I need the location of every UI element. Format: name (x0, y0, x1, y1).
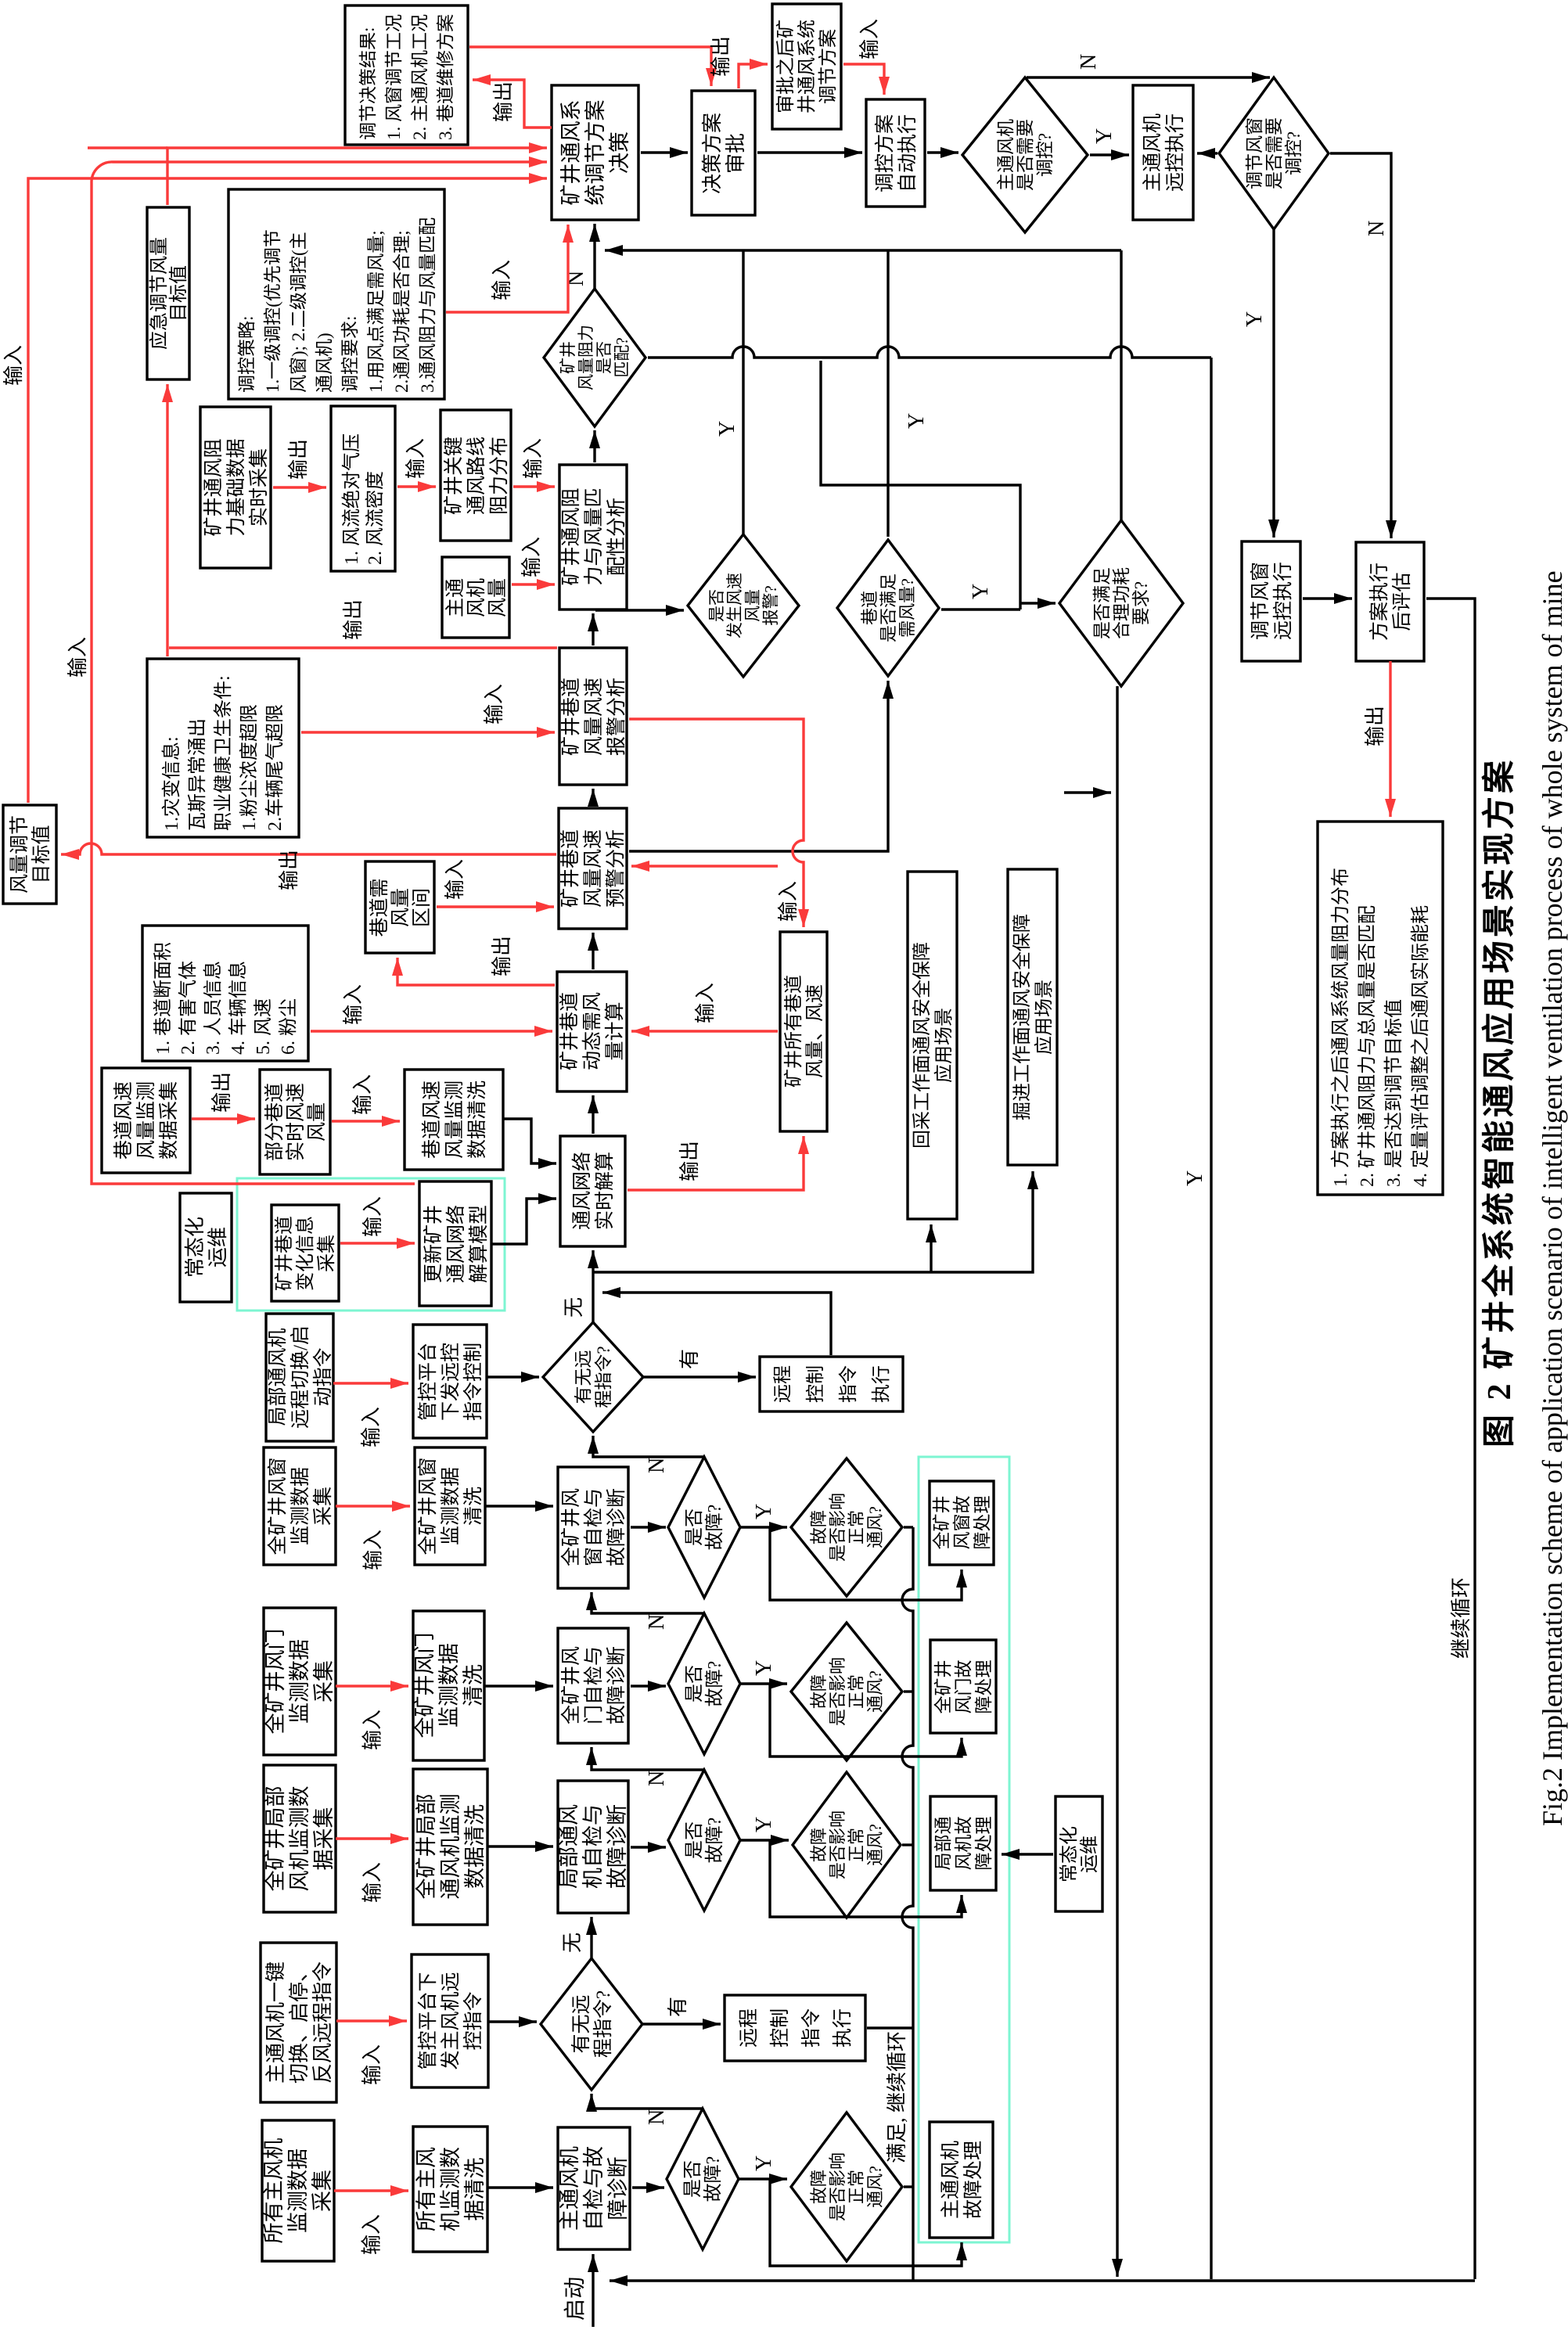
box: 矿井关键通风路线阻力分布 (441, 410, 511, 541)
svg-text:要求?: 要求? (1131, 581, 1151, 625)
wire: 需风量满足支线 (821, 361, 1020, 609)
red wire: 报警分析输出上行 (169, 646, 557, 649)
svg-text:指令: 指令 (838, 1365, 859, 1403)
box: 矿井巷道风量风速预警分析 (559, 808, 627, 929)
svg-text:故障处理: 故障处理 (962, 2141, 984, 2219)
wire: 汇流上行入决策 (605, 249, 1121, 251)
svg-text:通风路线: 通风路线 (466, 437, 487, 515)
box: 主通风机远控执行 (1133, 85, 1193, 220)
svg-text:输出: 输出 (210, 1072, 233, 1113)
svg-text:矿井: 矿井 (559, 341, 577, 374)
svg-text:数据采集: 数据采集 (158, 1081, 180, 1160)
svg-text:是否影响: 是否影响 (828, 1657, 847, 1726)
diamond: 是否故障?(风窗) (668, 1457, 740, 1598)
box: 决策方案审批 (692, 91, 755, 215)
wire: 有无远程指令局有 (643, 1375, 756, 1378)
svg-text:执行: 执行 (832, 2008, 854, 2048)
svg-text:自动执行: 自动执行 (897, 114, 919, 192)
svg-text:调控策略:: 调控策略: (237, 316, 257, 393)
svg-text:风量监测: 风量监测 (135, 1081, 157, 1160)
svg-text:矿井巷道: 矿井巷道 (274, 1216, 295, 1291)
wire: 回采场景支线 (930, 1224, 932, 1272)
red wire: 调节决策结果到审批 (469, 47, 711, 86)
svg-text:力与风量匹: 力与风量匹 (583, 487, 605, 585)
svg-text:障诊断: 障诊断 (606, 2157, 630, 2220)
svg-text:3. 是否达到调节目标值: 3. 是否达到调节目标值 (1383, 999, 1404, 1187)
svg-text:管控平台下: 管控平台下 (417, 1972, 439, 2069)
svg-text:数据清洗: 数据清洗 (466, 1081, 488, 1159)
svg-text:2.通风功耗是否合理;: 2.通风功耗是否合理; (392, 230, 412, 393)
wire: 风窗远控执行到方案执行后评估 (1303, 597, 1352, 599)
svg-text:矿井巷道: 矿井巷道 (560, 678, 582, 756)
svg-text:下发远控: 下发远控 (440, 1343, 462, 1421)
svg-text:风量: 风量 (487, 578, 509, 617)
svg-text:输出: 输出 (710, 36, 732, 77)
box: 通风网络实时解算 (560, 1136, 625, 1246)
wire: 满足入循环 (1064, 791, 1111, 793)
svg-text:故障: 故障 (809, 2170, 829, 2204)
svg-text:5. 风速: 5. 风速 (253, 998, 274, 1055)
wire: 有无远程指令局无 (592, 1250, 594, 1322)
wire: 远程执行主下行 (867, 2026, 913, 2029)
svg-text:风机监测数: 风机监测数 (288, 1786, 311, 1892)
svg-text:是否: 是否 (707, 589, 726, 622)
svg-text:指令: 指令 (800, 2008, 822, 2048)
svg-text:门自检与: 门自检与 (583, 1646, 605, 1724)
wire: 匹配判断N到决策 (593, 224, 595, 289)
diamond: 有无远程指令?(主) (541, 1958, 642, 2090)
wire: 是否故障局Y (740, 1839, 789, 1841)
svg-text:回采工作面通风安全保障: 回采工作面通风安全保障 (912, 942, 933, 1149)
svg-text:风量风速: 风量风速 (582, 829, 604, 908)
svg-text:应用场景: 应用场景 (933, 1008, 955, 1083)
svg-text:远程切换/启: 远程切换/启 (290, 1325, 311, 1429)
wire: 是否故障主Y (739, 2177, 787, 2180)
svg-text:所有主风: 所有主风 (415, 2147, 438, 2231)
red wire: 决策输出到调节决策结果 (473, 80, 552, 128)
red wire: 所有主风机采集到清洗 (334, 2189, 408, 2192)
box: 局部通风机故障处理 (930, 1796, 996, 1890)
wire: 是否故障风门N (592, 1592, 704, 1613)
svg-text:风窗故: 风窗故 (952, 1496, 972, 1550)
wire: 预警分析到报警分析 (592, 789, 594, 806)
wire: 主自检到是否故障 (632, 2186, 664, 2188)
box: 矿井所有巷道风量风速 (780, 932, 827, 1131)
box: 更新矿井通风网络解算模型 (419, 1181, 491, 1306)
diamond: 故障是否影响正常通风?(主) (791, 2112, 902, 2261)
svg-text:是否: 是否 (685, 1821, 705, 1859)
svg-text:切换、启停、: 切换、启停、 (288, 1961, 311, 2084)
svg-text:风门故: 风门故 (954, 1660, 973, 1714)
svg-text:1. 巷道断面积: 1. 巷道断面积 (153, 942, 174, 1055)
svg-text:通风?: 通风? (865, 1506, 885, 1548)
wire: 影响判断风门N下行 (904, 1690, 913, 1692)
svg-text:调控?: 调控? (1284, 131, 1304, 175)
svg-text:区间: 区间 (411, 888, 433, 927)
box: 巷道风速风量监测数据采集 (102, 1068, 190, 1173)
svg-text:Y: Y (1183, 1170, 1207, 1186)
svg-text:远控执行: 远控执行 (1272, 562, 1294, 640)
box: 远程控制指令执行(主) (725, 1995, 865, 2061)
box: 全矿井风门故障处理 (930, 1640, 996, 1733)
wire: 评估返回继续循环 (1426, 599, 1475, 2279)
svg-text:瓦斯异常涌出: 瓦斯异常涌出 (187, 718, 208, 831)
svg-text:是否: 是否 (595, 341, 613, 374)
wire: 有无远程指令主有 (642, 2023, 721, 2025)
teal frame: 常态化运维巷道变化采集区 (237, 1178, 505, 1311)
svg-text:故障: 故障 (809, 1828, 829, 1862)
red wire: 风量调节目标值到决策 (28, 178, 547, 803)
svg-text:调节决策结果:: 调节决策结果: (358, 27, 378, 140)
box: 巷道断面积等清单 (142, 926, 308, 1061)
svg-text:矿井所有巷道: 矿井所有巷道 (783, 975, 804, 1088)
box: 方案执行后评估 (1356, 542, 1424, 661)
wire: 主风机清洗到自检 (487, 2186, 553, 2188)
wire: 是否故障风窗Y (740, 1526, 787, 1528)
svg-text:部分巷道: 部分巷道 (264, 1083, 286, 1161)
box: 应急调节风量目标值 (147, 207, 189, 379)
wire: 是否故障主N (592, 2094, 703, 2109)
svg-text:决策方案: 决策方案 (701, 113, 724, 194)
wire: 自动执行到主通风机调控判断 (927, 151, 958, 153)
svg-text:需风量?: 需风量? (897, 578, 917, 638)
wire: 审批到自动执行 (757, 151, 862, 153)
box: 局部通风机自检与故障诊断 (557, 1781, 629, 1913)
svg-text:是否影响: 是否影响 (828, 2152, 847, 2221)
svg-text:方案执行: 方案执行 (1368, 563, 1390, 641)
red wire: 风门采集到清洗 (336, 1685, 408, 1687)
svg-text:力基础数据: 力基础数据 (225, 438, 247, 536)
wire: 风窗调控判断Y到风窗远控执行 (1272, 229, 1275, 538)
svg-text:监测数据: 监测数据 (437, 1643, 461, 1728)
svg-text:目标值: 目标值 (31, 825, 52, 883)
box: 巷道风速风量监测数据清洗 (405, 1070, 503, 1170)
box: 调控方案自动执行 (866, 99, 925, 207)
svg-text:正常: 正常 (847, 1510, 866, 1544)
wire: 满足继续循环汇流线 (902, 1527, 913, 2281)
svg-text:更新矿井: 更新矿井 (423, 1205, 444, 1283)
wire: 局故障处理引线 (770, 1840, 962, 1917)
svg-text:审批之后矿: 审批之后矿 (775, 20, 797, 113)
svg-text:阻力分布: 阻力分布 (488, 437, 510, 515)
svg-text:输出: 输出 (342, 599, 365, 640)
box: 全矿井风窗监测数据采集 (264, 1447, 336, 1565)
svg-text:障处理: 障处理 (973, 1496, 992, 1550)
red wire: 更新模型线到决策 (92, 162, 547, 1184)
wire: 有无远程指令主无 (590, 1917, 592, 1958)
svg-text:输出: 输出 (1364, 706, 1386, 746)
wire: 局自检到是否故障 (631, 1846, 666, 1848)
box: 风量调节目标值 (3, 805, 56, 904)
red wire: 预警分析输出到风量调节目标值 (61, 843, 556, 854)
svg-text:Y: Y (752, 2156, 776, 2171)
svg-text:控制: 控制 (805, 1365, 826, 1403)
box: 全矿井风窗故障处理 (930, 1481, 994, 1565)
red wire: 阻力采集到气压密度 (273, 486, 326, 488)
svg-text:通风机): 通风机) (315, 333, 334, 393)
wire: 报警分析到报警判断 (595, 609, 684, 611)
wire: 动态需风量到预警分析 (592, 933, 594, 969)
svg-text:常态化: 常态化 (1059, 1826, 1080, 1882)
svg-text:继续循环: 继续循环 (1450, 1577, 1473, 1659)
svg-text:通风网络: 通风网络 (445, 1205, 467, 1283)
svg-text:2. 有害气体: 2. 有害气体 (178, 961, 199, 1055)
svg-text:控制: 控制 (769, 2008, 791, 2048)
diamond: 是否发生风速报警? (688, 534, 799, 677)
wire: 局部清洗到自检 (487, 1845, 553, 1847)
svg-text:通风?: 通风? (865, 2166, 885, 2208)
box: 全矿井局部风机监测数据采集 (264, 1765, 336, 1912)
box: 局部通风机远程切换启动指令 (266, 1314, 334, 1441)
svg-text:变化信息: 变化信息 (295, 1216, 316, 1291)
wire: 报警分析到匹配性分析 (592, 613, 594, 645)
box: 管控平台下发主风机远控指令 (412, 1954, 488, 2087)
svg-text:Y: Y (752, 1660, 776, 1676)
svg-text:4. 定量评估调整之后通风实际能耗: 4. 定量评估调整之后通风实际能耗 (1410, 905, 1431, 1187)
svg-text:输入: 输入 (361, 2214, 383, 2255)
svg-text:监测数据: 监测数据 (288, 1639, 311, 1724)
svg-text:审批: 审批 (725, 133, 747, 174)
red wire: 部分巷道实时到数据清洗 (332, 1120, 400, 1122)
svg-text:是否: 是否 (683, 2160, 703, 2198)
svg-text:窗自检与: 窗自检与 (583, 1488, 605, 1566)
svg-text:主通: 主通 (444, 578, 466, 617)
box: 全矿井风门监测数据采集 (264, 1608, 336, 1755)
box: 主通风机一键切换启停反风远程指令 (261, 1943, 336, 2102)
svg-text:风机故: 风机故 (954, 1817, 973, 1871)
wire: 风窗调控判断到主通风机远控执行 (1197, 152, 1217, 154)
svg-text:Y: Y (1243, 311, 1267, 327)
red wire: 审批之后方案到自动执行 (843, 64, 884, 95)
box: 回采工作面通风安全保障应用场景 (908, 872, 957, 1219)
red wire: 实时解算输出到所有巷道风量 (628, 1136, 804, 1190)
svg-text:输出: 输出 (278, 850, 300, 890)
svg-text:采集: 采集 (312, 1660, 336, 1703)
box: 管控平台下发远控指令控制 (413, 1325, 487, 1438)
svg-text:反风远程指令: 反风远程指令 (311, 1961, 334, 2084)
svg-text:据采集: 据采集 (312, 1807, 336, 1871)
wire: 循环线1548 (1210, 358, 1212, 2279)
svg-text:3.通风阻力与风量匹配: 3.通风阻力与风量匹配 (418, 218, 437, 393)
red wire: 主通风机指令到管控平台 (336, 2019, 407, 2022)
diamond: 是否故障?(局) (668, 1770, 740, 1911)
svg-text:实时风速: 实时风速 (285, 1083, 307, 1161)
svg-text:2. 矿井通风阻力与总风量是否匹配: 2. 矿井通风阻力与总风量是否匹配 (1357, 905, 1378, 1187)
svg-text:是否满足: 是否满足 (879, 574, 898, 642)
svg-text:发主风机远: 发主风机远 (440, 1972, 462, 2069)
svg-text:输入: 输入 (858, 19, 881, 59)
svg-text:控指令: 控指令 (462, 1991, 484, 2050)
svg-text:N: N (645, 2109, 669, 2125)
svg-text:管控平台: 管控平台 (417, 1343, 439, 1421)
svg-text:调控方案: 调控方案 (874, 114, 896, 192)
svg-text:风量调节: 风量调节 (9, 815, 31, 894)
box: 掘进工作面通风安全保障应用场景 (1008, 869, 1057, 1165)
svg-text:通风网络: 通风网络 (571, 1152, 593, 1230)
svg-text:发生风速: 发生风速 (725, 573, 744, 638)
wire: 需风量判断Y下行 (941, 608, 1020, 610)
box: 常态化运维(下) (1056, 1796, 1102, 1911)
svg-text:全矿井局部: 全矿井局部 (264, 1786, 287, 1892)
svg-text:风量风速: 风量风速 (583, 678, 605, 756)
svg-text:机自检与: 机自检与 (581, 1804, 605, 1889)
wire: 数据清洗到实时解算 (503, 1119, 556, 1163)
box: 矿井通风系统调节方案决策 (552, 85, 638, 220)
svg-text:输入: 输入 (362, 1530, 385, 1570)
svg-text:故障?: 故障? (704, 1661, 725, 1707)
svg-text:运维: 运维 (1079, 1836, 1100, 1873)
box: 巷道需风量区间 (365, 861, 434, 953)
diamond: 是否满足合理功耗要求? (1059, 520, 1183, 686)
svg-text:矿井通风系: 矿井通风系 (559, 100, 583, 206)
red wire: 巷道风速采集到部分巷道实时 (192, 1117, 255, 1120)
red wire: 评估输出到评估清单 (1389, 661, 1391, 817)
svg-text:N: N (645, 1614, 669, 1630)
svg-text:程指令?: 程指令? (594, 1346, 613, 1408)
svg-text:输入: 输入 (361, 1710, 384, 1750)
svg-text:全矿井风: 全矿井风 (560, 1488, 582, 1566)
diamond: 是否故障?(主) (667, 2109, 739, 2249)
svg-text:输入: 输入 (522, 438, 545, 479)
svg-text:主通风机: 主通风机 (1142, 113, 1163, 192)
svg-text:全矿井风: 全矿井风 (560, 1646, 582, 1724)
box: 风流绝对气压风流密度 (331, 406, 395, 571)
svg-text:障处理: 障处理 (974, 1660, 994, 1714)
svg-text:输出: 输出 (287, 439, 310, 480)
svg-text:巷道需: 巷道需 (369, 878, 390, 937)
svg-text:局部通风机: 局部通风机 (267, 1328, 289, 1426)
svg-text:Y: Y (1092, 128, 1117, 144)
svg-text:是否影响: 是否影响 (828, 1810, 847, 1879)
svg-text:全矿井风窗: 全矿井风窗 (267, 1457, 289, 1555)
svg-text:主通风机: 主通风机 (940, 2141, 962, 2219)
svg-text:矿井通风阻: 矿井通风阻 (203, 438, 225, 536)
svg-text:输入: 输入 (361, 2044, 383, 2085)
svg-text:Y: Y (969, 584, 993, 599)
wire: 实时解算到动态需风量 (592, 1095, 594, 1134)
svg-text:后评估: 后评估 (1391, 572, 1413, 631)
wire: 风门自检到是否故障 (631, 1685, 666, 1687)
svg-text:通风?: 通风? (865, 1824, 885, 1866)
svg-text:动态需风: 动态需风 (581, 992, 603, 1070)
box: 调控策略与调控要求 (228, 189, 444, 399)
box: 常态化运维(上) (180, 1193, 232, 1302)
svg-text:风量监测: 风量监测 (444, 1081, 466, 1159)
box: 矿井通风阻力基础数据实时采集 (200, 407, 271, 568)
svg-text:N: N (645, 1458, 669, 1473)
svg-text:掘进工作面通风安全保障: 掘进工作面通风安全保障 (1012, 914, 1033, 1120)
svg-text:是否需要: 是否需要 (1264, 117, 1284, 189)
svg-text:是否: 是否 (685, 1508, 705, 1546)
svg-text:运维: 运维 (207, 1227, 229, 1267)
wire: 应用场景干线 (593, 1171, 1033, 1272)
svg-text:矿井巷道: 矿井巷道 (559, 992, 581, 1070)
svg-text:输入: 输入 (405, 438, 427, 479)
red wire: 调控要求到决策 (446, 225, 568, 312)
box: 全矿井风门监测数据清洗 (413, 1611, 485, 1760)
svg-text:是否满足: 是否满足 (1092, 567, 1112, 639)
svg-text:2. 主通风机工况: 2. 主通风机工况 (410, 14, 430, 140)
svg-text:风机: 风机 (466, 578, 487, 617)
svg-text:输入: 输入 (444, 859, 466, 900)
svg-text:调控?: 调控? (1035, 133, 1055, 177)
svg-text:解算模型: 解算模型 (468, 1205, 490, 1283)
svg-text:有无远: 有无远 (570, 1994, 592, 2053)
wire: 管控平台到有无远程指令局 (487, 1375, 539, 1378)
svg-text:3. 巷道维修方案: 3. 巷道维修方案 (436, 14, 455, 140)
svg-text:正常: 正常 (847, 1828, 866, 1862)
svg-text:故障诊断: 故障诊断 (606, 1646, 628, 1724)
svg-text:故障?: 故障? (704, 1505, 725, 1551)
diamond: 调节风窗是否需要调控? (1219, 77, 1329, 229)
svg-text:井通风系统: 井通风系统 (797, 20, 818, 113)
svg-text:输入: 输入 (361, 1196, 384, 1237)
wire: 需风量判断Y右行 (886, 250, 889, 537)
box: 全矿井风窗监测数据清洗 (415, 1447, 485, 1565)
svg-text:输入: 输入 (483, 684, 505, 725)
svg-text:采集: 采集 (316, 1235, 337, 1272)
svg-text:输入: 输入 (342, 984, 365, 1025)
svg-text:所有主风机: 所有主风机 (262, 2138, 286, 2244)
wire: 影响判断局N下行 (902, 1843, 913, 1846)
wire: 更新模型到实时解算 (491, 1199, 556, 1244)
svg-text:远程: 远程 (738, 2008, 760, 2048)
svg-text:Fig.2 Implementation scheme o: Fig.2 Implementation scheme of applicati… (1537, 570, 1568, 1826)
svg-text:监测数据: 监测数据 (290, 1467, 311, 1545)
svg-text:输入: 输入 (361, 1862, 384, 1903)
svg-text:动指令: 动指令 (312, 1347, 334, 1406)
svg-text:输入: 输入 (67, 637, 89, 678)
svg-text:1.一级调控(优先调节: 1.一级调控(优先调节 (263, 229, 282, 393)
svg-text:巷道: 巷道 (860, 591, 879, 625)
svg-text:据清洗: 据清洗 (463, 2158, 487, 2221)
svg-text:1. 风窗调节工况: 1. 风窗调节工况 (384, 14, 404, 140)
wire: 常态化运维到局部故障处理 (1002, 1853, 1053, 1855)
svg-text:采集: 采集 (311, 2170, 334, 2212)
wire: 是否故障风门Y (740, 1682, 787, 1685)
red wire: 局部风机指令到管控平台 (333, 1382, 408, 1384)
svg-text:目标值: 目标值 (168, 265, 189, 322)
diamond: 故障是否影响正常通风?(风窗) (791, 1458, 902, 1596)
box: 调节风窗远控执行 (1242, 541, 1300, 661)
svg-text:3. 人员信息: 3. 人员信息 (203, 961, 224, 1055)
svg-text:无: 无 (561, 1933, 584, 1953)
box: 所有主风机监测数据采集 (262, 2120, 334, 2261)
svg-text:是否影响: 是否影响 (828, 1493, 847, 1562)
red wire: 所有巷道风量到预警分析 (631, 865, 778, 867)
svg-text:通风?: 通风? (865, 1670, 885, 1713)
svg-text:输入: 输入 (360, 1407, 383, 1447)
svg-text:故障: 故障 (809, 1674, 829, 1709)
wire: 循环线1428 (1116, 686, 1118, 2277)
svg-text:应急调节风量: 应急调节风量 (149, 237, 170, 350)
diamond: 故障是否影响正常通风?(风门) (791, 1623, 902, 1760)
svg-text:矿井通风阻: 矿井通风阻 (560, 487, 582, 585)
svg-text:统调节方案: 统调节方案 (584, 100, 607, 206)
box: 矿井巷道风量风速报警分析 (559, 648, 628, 785)
svg-text:实时采集: 实时采集 (248, 448, 270, 527)
svg-text:风量阻力: 风量阻力 (577, 325, 595, 390)
box: 主通风机风量 (442, 557, 509, 638)
red wire: 灾变信息到报警分析 (301, 731, 555, 733)
svg-text:调控要求:: 调控要求: (340, 316, 360, 393)
wire: 风门清洗到自检 (484, 1685, 553, 1687)
svg-text:Y: Y (752, 1504, 776, 1519)
svg-text:远程: 远程 (772, 1365, 793, 1403)
svg-text:全矿井风门: 全矿井风门 (413, 1633, 437, 1739)
red wire: 所有巷道风量到动态需风量 (631, 1030, 778, 1032)
svg-text:无: 无 (563, 1297, 585, 1318)
